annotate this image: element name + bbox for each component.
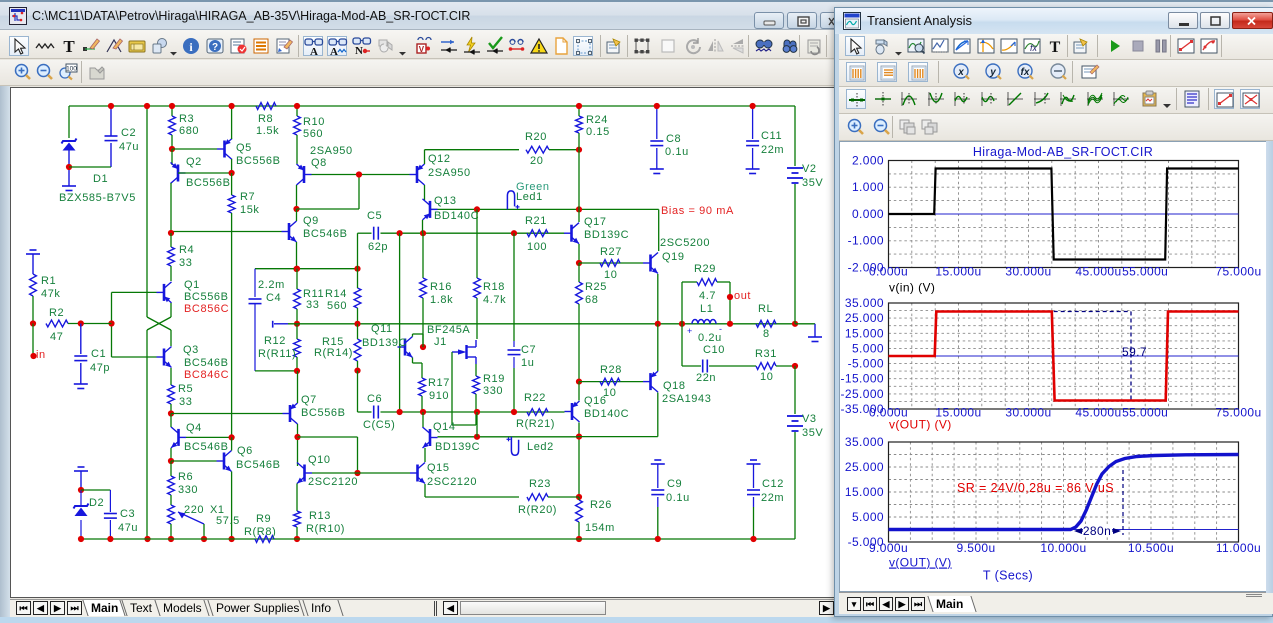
junction rail X1 wiper [201, 536, 207, 542]
capacitor C5 [373, 227, 375, 240]
svg-text:8: 8 [763, 328, 770, 340]
junction D1/C2 [66, 164, 72, 170]
wire Q8 box bottom [297, 208, 360, 210]
resistor R5 [168, 385, 175, 404]
ground below C1 [74, 383, 88, 385]
wire node line C4-R11-R14 [255, 268, 359, 270]
wire to D1 [68, 106, 70, 138]
capacitor C4 [249, 298, 262, 300]
wire Q9 emitter down [296, 242, 298, 269]
svg-text:22n: 22n [696, 372, 716, 384]
svg-text:V: V [419, 45, 425, 54]
svg-text:10: 10 [604, 269, 617, 281]
svg-text:R(R11): R(R11) [258, 348, 296, 360]
junction bias/R24 column [576, 206, 582, 212]
wire Q12 emitter up [424, 150, 426, 164]
wire Q2 collector down [170, 183, 172, 233]
junction R27 node [576, 260, 582, 266]
resistor R16 [420, 278, 427, 298]
junction Led2 line x477 [474, 434, 480, 440]
transistor Q15 [416, 465, 419, 482]
svg-text:100: 100 [527, 241, 547, 253]
wire C6/R22 line [381, 411, 565, 413]
resistor R9 [255, 536, 274, 543]
svg-text:10: 10 [603, 387, 616, 399]
svg-text:35V: 35V [802, 177, 823, 189]
svg-text:22m: 22m [761, 492, 784, 504]
svg-text:C7: C7 [521, 344, 536, 356]
svg-text:R4: R4 [179, 244, 194, 256]
svg-text:R(R10): R(R10) [306, 523, 345, 535]
svg-text:C1: C1 [91, 348, 106, 360]
svg-text:47u: 47u [118, 522, 138, 534]
plot 3 zero line [889, 529, 1239, 531]
svg-text:BC556B: BC556B [184, 291, 229, 303]
junction R3 bottom [169, 146, 175, 152]
svg-text:Q6: Q6 [237, 445, 253, 457]
resistor RL [756, 320, 776, 327]
junction x400 bottom [397, 409, 403, 415]
wire Q5 emitter to rail [231, 106, 233, 139]
svg-text:R12: R12 [264, 335, 286, 347]
svg-text:Q11: Q11 [371, 323, 393, 335]
svg-text:v(in) (V): v(in) (V) [889, 281, 935, 295]
svg-text:68: 68 [585, 294, 598, 306]
plot 1 zero line [889, 213, 1239, 215]
svg-text:0.1u: 0.1u [666, 492, 690, 504]
svg-text:220: 220 [184, 504, 204, 516]
svg-text:D1: D1 [93, 173, 108, 185]
svg-text:BC546B: BC546B [184, 357, 229, 369]
wire R3 to Q5 base [172, 148, 217, 150]
svg-text:30.000u: 30.000u [1005, 406, 1051, 420]
app icon [9, 7, 27, 25]
svg-text:J1: J1 [434, 336, 447, 348]
svg-text:-25.000: -25.000 [841, 387, 885, 401]
wire to Q2 emitter [171, 149, 173, 165]
svg-text:y: y [989, 67, 996, 78]
wire Q17 collector to bias [578, 209, 580, 222]
wire vertical x400 [399, 233, 401, 412]
svg-text:560: 560 [303, 128, 323, 140]
svg-text:C(C5): C(C5) [363, 419, 395, 431]
title bar [0, 2, 1273, 30]
capacitor C11 [746, 140, 759, 142]
junction rail C9 [655, 536, 661, 542]
svg-text:2SA1943: 2SA1943 [662, 393, 711, 405]
transistor Q1 [163, 284, 166, 301]
svg-text:C3: C3 [120, 508, 135, 520]
wire Q11 base stub [400, 346, 401, 348]
svg-text:v(OUT) (V): v(OUT) (V) [889, 556, 952, 570]
svg-text:55.000u: 55.000u [1122, 406, 1168, 420]
wire y=233 Q2col/R4/Q9 base [171, 231, 282, 233]
svg-text:A: A [310, 46, 318, 57]
svg-text:L1: L1 [700, 303, 713, 315]
wire Q15 collector to Q14 [424, 448, 426, 462]
wire X1 wiper down [203, 524, 205, 539]
svg-text:15k: 15k [240, 204, 260, 216]
transistor Q7 [289, 405, 292, 422]
junction rail R26 [576, 536, 582, 542]
svg-text:C5: C5 [367, 210, 382, 222]
transistor Q13 (BD140C) [429, 201, 432, 218]
svg-text:0.000: 0.000 [852, 207, 884, 221]
svg-text:C10: C10 [703, 344, 725, 356]
svg-text:62p: 62p [368, 241, 388, 253]
svg-text:Q19: Q19 [662, 251, 685, 263]
junction rail C11 [750, 103, 756, 109]
junction input node [108, 320, 114, 326]
svg-text:Q10: Q10 [308, 454, 331, 466]
svg-text:4.7: 4.7 [699, 290, 716, 302]
capacitor C4 top lead [254, 269, 256, 297]
resistor R4 [168, 247, 175, 266]
transistor Q6 [223, 453, 226, 470]
svg-text:10.000u: 10.000u [1040, 541, 1086, 555]
junction rail R24 [576, 103, 582, 109]
wire C10 branch down [681, 324, 683, 366]
ground below C11 [746, 168, 760, 170]
wire R27 line [579, 262, 643, 264]
capacitor C12 top lead [753, 464, 755, 488]
wire x477 down [476, 412, 478, 437]
svg-text:33: 33 [306, 299, 319, 311]
svg-text:T: T [63, 37, 75, 56]
svg-text:15.000u: 15.000u [935, 265, 981, 279]
resistor R29 [697, 279, 717, 286]
wire Q14 collector up [422, 412, 424, 427]
svg-text:BD140C: BD140C [434, 210, 479, 222]
resistor R1 [30, 274, 37, 296]
capacitor C6 [373, 406, 375, 419]
junction R11/R12 feedback rail [294, 321, 300, 327]
svg-text:75.000u: 75.000u [1215, 406, 1261, 420]
resistor R2 [46, 320, 68, 327]
resistor R10 [294, 116, 301, 135]
svg-text:15.000: 15.000 [845, 326, 884, 340]
transistor Q9 [288, 223, 291, 240]
bar symbol above R1 [30, 249, 37, 251]
wire C4 bottom to R12 [255, 370, 297, 372]
resistor R11 [294, 289, 301, 309]
svg-text:R29: R29 [694, 263, 716, 275]
wire D1 to ground [68, 178, 70, 186]
280n dashed vertical [1122, 470, 1124, 535]
svg-text:?: ? [212, 42, 218, 53]
wire J1 source to R19 [475, 364, 477, 376]
wire R4 to Q1 collector [170, 266, 172, 281]
svg-text:Q14: Q14 [433, 421, 456, 433]
svg-text:BC546B: BC546B [236, 459, 281, 471]
wire cross X diag 1 [147, 317, 171, 330]
transistor Q10 [303, 465, 306, 482]
junction rail Q6 [229, 536, 235, 542]
svg-text:BD139C: BD139C [584, 229, 629, 241]
wire J1 gate loop bottom [452, 424, 476, 426]
bar symbol above D2 [78, 466, 85, 468]
svg-text:Q15: Q15 [427, 462, 450, 474]
svg-text:fx: fx [1030, 43, 1038, 53]
junction Q18 collector line [576, 434, 582, 440]
junction rail C8 [654, 103, 660, 109]
wire Q6 emitter to rail [231, 472, 233, 540]
tab bar [10, 599, 836, 617]
svg-text:20: 20 [530, 155, 543, 167]
svg-text:47u: 47u [119, 141, 139, 153]
svg-text:35.000: 35.000 [845, 296, 884, 310]
svg-text:R7: R7 [240, 191, 255, 203]
svg-text:2.2m: 2.2m [258, 279, 285, 291]
resistor R15 [354, 339, 361, 361]
wire R29 branch right [729, 282, 731, 324]
TA toolbars [839, 34, 1273, 60]
svg-text:25.000: 25.000 [845, 460, 884, 474]
transistor Q17 (BD139C) [570, 225, 573, 242]
capacitor C7 [508, 349, 521, 351]
junction rail/C2 [108, 103, 114, 109]
wire to V3 [794, 366, 796, 414]
waveform v(OUT) blue S-curve [889, 455, 1239, 530]
battery V3 [787, 415, 803, 417]
junction output emitters [655, 321, 661, 327]
resistor R28 [600, 378, 620, 385]
svg-text:Q1: Q1 [184, 279, 200, 291]
svg-text:-15.000: -15.000 [841, 372, 885, 386]
svg-text:5.000: 5.000 [852, 341, 884, 355]
svg-text:R10: R10 [303, 116, 325, 128]
svg-text:47p: 47p [90, 362, 110, 374]
measurement dashes navy plot2 [1054, 311, 1131, 313]
wire to in node [32, 324, 34, 356]
LED Led1 green [507, 191, 514, 210]
resistor R20 [526, 146, 549, 153]
svg-text:280n: 280n [1083, 524, 1111, 538]
svg-text:v(OUT) (V): v(OUT) (V) [889, 418, 952, 432]
LED Led2 [511, 437, 518, 456]
wire Q11 collector stub [412, 334, 414, 337]
wire Q10 emitter to R13 [296, 484, 298, 512]
junction R12 bottom [294, 368, 300, 374]
resistor R26 [576, 500, 583, 522]
svg-text:1u: 1u [521, 357, 534, 369]
inductor L1 [692, 320, 716, 324]
svg-text:1.5k: 1.5k [256, 125, 279, 137]
wire Q1 base [112, 291, 157, 293]
wire Q7 bottom to Q10 [297, 424, 299, 466]
svg-text:Q18: Q18 [663, 380, 686, 392]
ground below C8 [650, 168, 664, 170]
svg-text:Q4: Q4 [186, 422, 202, 434]
left frame strip [0, 86, 10, 618]
wire bias line [430, 208, 659, 210]
junction R14/R15 [354, 321, 360, 327]
svg-text:Q9: Q9 [303, 215, 319, 227]
wire y437 to x357 [298, 436, 358, 438]
resistor R3 top lead [171, 106, 173, 116]
svg-text:Q7: Q7 [301, 394, 317, 406]
capacitor C10 [702, 360, 704, 373]
svg-text:154m: 154m [585, 522, 615, 534]
transistor Q8 [303, 166, 306, 183]
junction D2/C3 [78, 487, 84, 493]
wire R5 node to Q7 base [171, 413, 283, 415]
resistor R17 [419, 378, 426, 396]
svg-text:BC556B: BC556B [301, 407, 346, 419]
wire Q16 collector down [578, 423, 580, 498]
svg-text:Q12: Q12 [428, 153, 451, 165]
resistor R14 [354, 288, 361, 308]
resistor R25 [576, 282, 583, 304]
tie symbol at feedback node [272, 321, 274, 328]
transistor Q16 (BD140C) [571, 403, 574, 420]
svg-text:T (Secs): T (Secs) [983, 569, 1033, 583]
wire bars to R1 [32, 254, 34, 274]
transistor Q19 (2SC5200) [649, 255, 652, 272]
svg-text:R14: R14 [325, 288, 347, 300]
wire to R16 [422, 233, 424, 278]
svg-text:C6: C6 [367, 393, 382, 405]
junction L1 left [679, 321, 685, 327]
wire to Q15 base [358, 472, 411, 474]
svg-text:A: A [330, 46, 338, 57]
wire C5 line left [358, 232, 372, 234]
ground at output [808, 336, 822, 338]
svg-text:680: 680 [179, 125, 199, 137]
svg-text:910: 910 [429, 390, 449, 402]
junction R24/R20 [576, 147, 582, 153]
transistor Q18 (2SA1943) [649, 373, 652, 390]
junction R5 bottom [168, 410, 174, 416]
svg-text:R27: R27 [600, 246, 622, 258]
resistor R7 [228, 195, 235, 213]
svg-text:BC856C: BC856C [184, 303, 229, 315]
svg-text:-: - [719, 324, 722, 334]
wire bias corner to Q19 collector [658, 209, 660, 251]
transistor Q3 [163, 349, 166, 366]
wire long left vertical lower [146, 330, 148, 539]
svg-text:1.8k: 1.8k [430, 294, 453, 306]
junction C7 bottom [511, 409, 517, 415]
TA title bar [835, 8, 1273, 34]
junction Q4/Q6/R6 [168, 458, 174, 464]
junction R31 right [792, 363, 798, 369]
node out marker [727, 294, 733, 300]
svg-text:R31: R31 [755, 348, 777, 360]
node in marker [30, 353, 36, 359]
transistor Q12 [416, 166, 419, 183]
svg-text:C11: C11 [761, 130, 782, 142]
svg-text:55.000u: 55.000u [1122, 265, 1168, 279]
svg-text:33: 33 [179, 257, 192, 269]
junction Q4 base [229, 434, 235, 440]
wire R24 node to bias [578, 150, 580, 210]
junction Q7/Led chain [294, 434, 300, 440]
svg-text:R(R20): R(R20) [518, 504, 557, 516]
junction x400 top [397, 230, 403, 236]
junction Q11 collector [420, 344, 426, 350]
svg-text:in: in [36, 349, 46, 361]
wire to output ground [795, 323, 815, 325]
svg-text:0.1u: 0.1u [665, 146, 689, 158]
svg-text:R17: R17 [428, 377, 450, 389]
svg-text:Q17: Q17 [584, 216, 607, 228]
wire Q4 collector up [170, 414, 172, 428]
280n label [1083, 525, 1112, 537]
svg-text:2SC2120: 2SC2120 [427, 476, 477, 488]
svg-text:45.000u: 45.000u [1075, 406, 1121, 420]
capacitor C7 top lead [513, 341, 515, 347]
wire R2 to input node [68, 323, 112, 325]
capacitor C2 [105, 135, 118, 137]
wire Q8 box right up [358, 175, 360, 210]
wire V+ top rail [69, 105, 795, 107]
junction C7 top [511, 230, 517, 236]
wire R28 line [579, 381, 643, 383]
svg-text:R23: R23 [529, 478, 551, 490]
svg-text:V2: V2 [802, 163, 817, 175]
svg-text:R9: R9 [256, 513, 271, 525]
plot 1 grid [911, 161, 913, 268]
svg-text:RL: RL [758, 303, 773, 315]
wire Q4 emitter down [170, 448, 172, 461]
waveform v(OUT) red square wave [889, 312, 1239, 401]
svg-text:D2: D2 [89, 497, 104, 509]
wire C5/R21 line [381, 232, 565, 234]
junction Q9 emitter node [293, 266, 299, 272]
resistor R22 [527, 409, 548, 416]
svg-text:47: 47 [50, 331, 63, 343]
junction rail C3 [107, 536, 113, 542]
svg-text:BD139C: BD139C [435, 441, 480, 453]
svg-text:2SC5200: 2SC5200 [660, 237, 710, 249]
svg-text:SR = 24V/0,28u = 86 V/uS: SR = 24V/0,28u = 86 V/uS [957, 481, 1114, 495]
svg-text:45.000u: 45.000u [1075, 265, 1121, 279]
wire C5 branch down [357, 233, 359, 269]
junction RL right [792, 321, 798, 327]
resistor R12 [294, 339, 301, 357]
wire Q4 base to Q6 collector [186, 436, 232, 438]
svg-text:25.000: 25.000 [845, 311, 884, 325]
svg-text:R26: R26 [590, 499, 612, 511]
wire Q18 collector to x579 [579, 436, 658, 438]
svg-text:BZX585-B7V5: BZX585-B7V5 [59, 192, 136, 204]
svg-text:R28: R28 [600, 364, 622, 376]
svg-text:R1: R1 [41, 275, 56, 287]
zener diode D1 [62, 139, 77, 144]
svg-text:R22: R22 [524, 392, 546, 404]
svg-text:R16: R16 [430, 281, 452, 293]
svg-text:C8: C8 [666, 133, 681, 145]
svg-text:75.000u: 75.000u [1215, 265, 1261, 279]
svg-text:Q3: Q3 [183, 344, 199, 356]
svg-text:N: N [355, 45, 363, 56]
wire C6 line left [358, 411, 372, 413]
TA right frame strip [1266, 141, 1273, 593]
toolbar row 1 [0, 30, 1273, 59]
svg-text:35V: 35V [802, 427, 823, 439]
junction Q10-Q15 base line [354, 470, 360, 476]
wire X to Q3 collector [170, 330, 172, 346]
svg-text:R19: R19 [483, 373, 505, 385]
svg-text:-1.000: -1.000 [848, 234, 884, 248]
capacitor C3 [104, 513, 117, 515]
junction Q5/Q2/R7 [229, 170, 235, 176]
potentiometer X1 [168, 505, 175, 524]
resistor R21 [527, 230, 548, 237]
resistor R8 [256, 103, 276, 110]
bar symbol above C9 [654, 459, 661, 461]
